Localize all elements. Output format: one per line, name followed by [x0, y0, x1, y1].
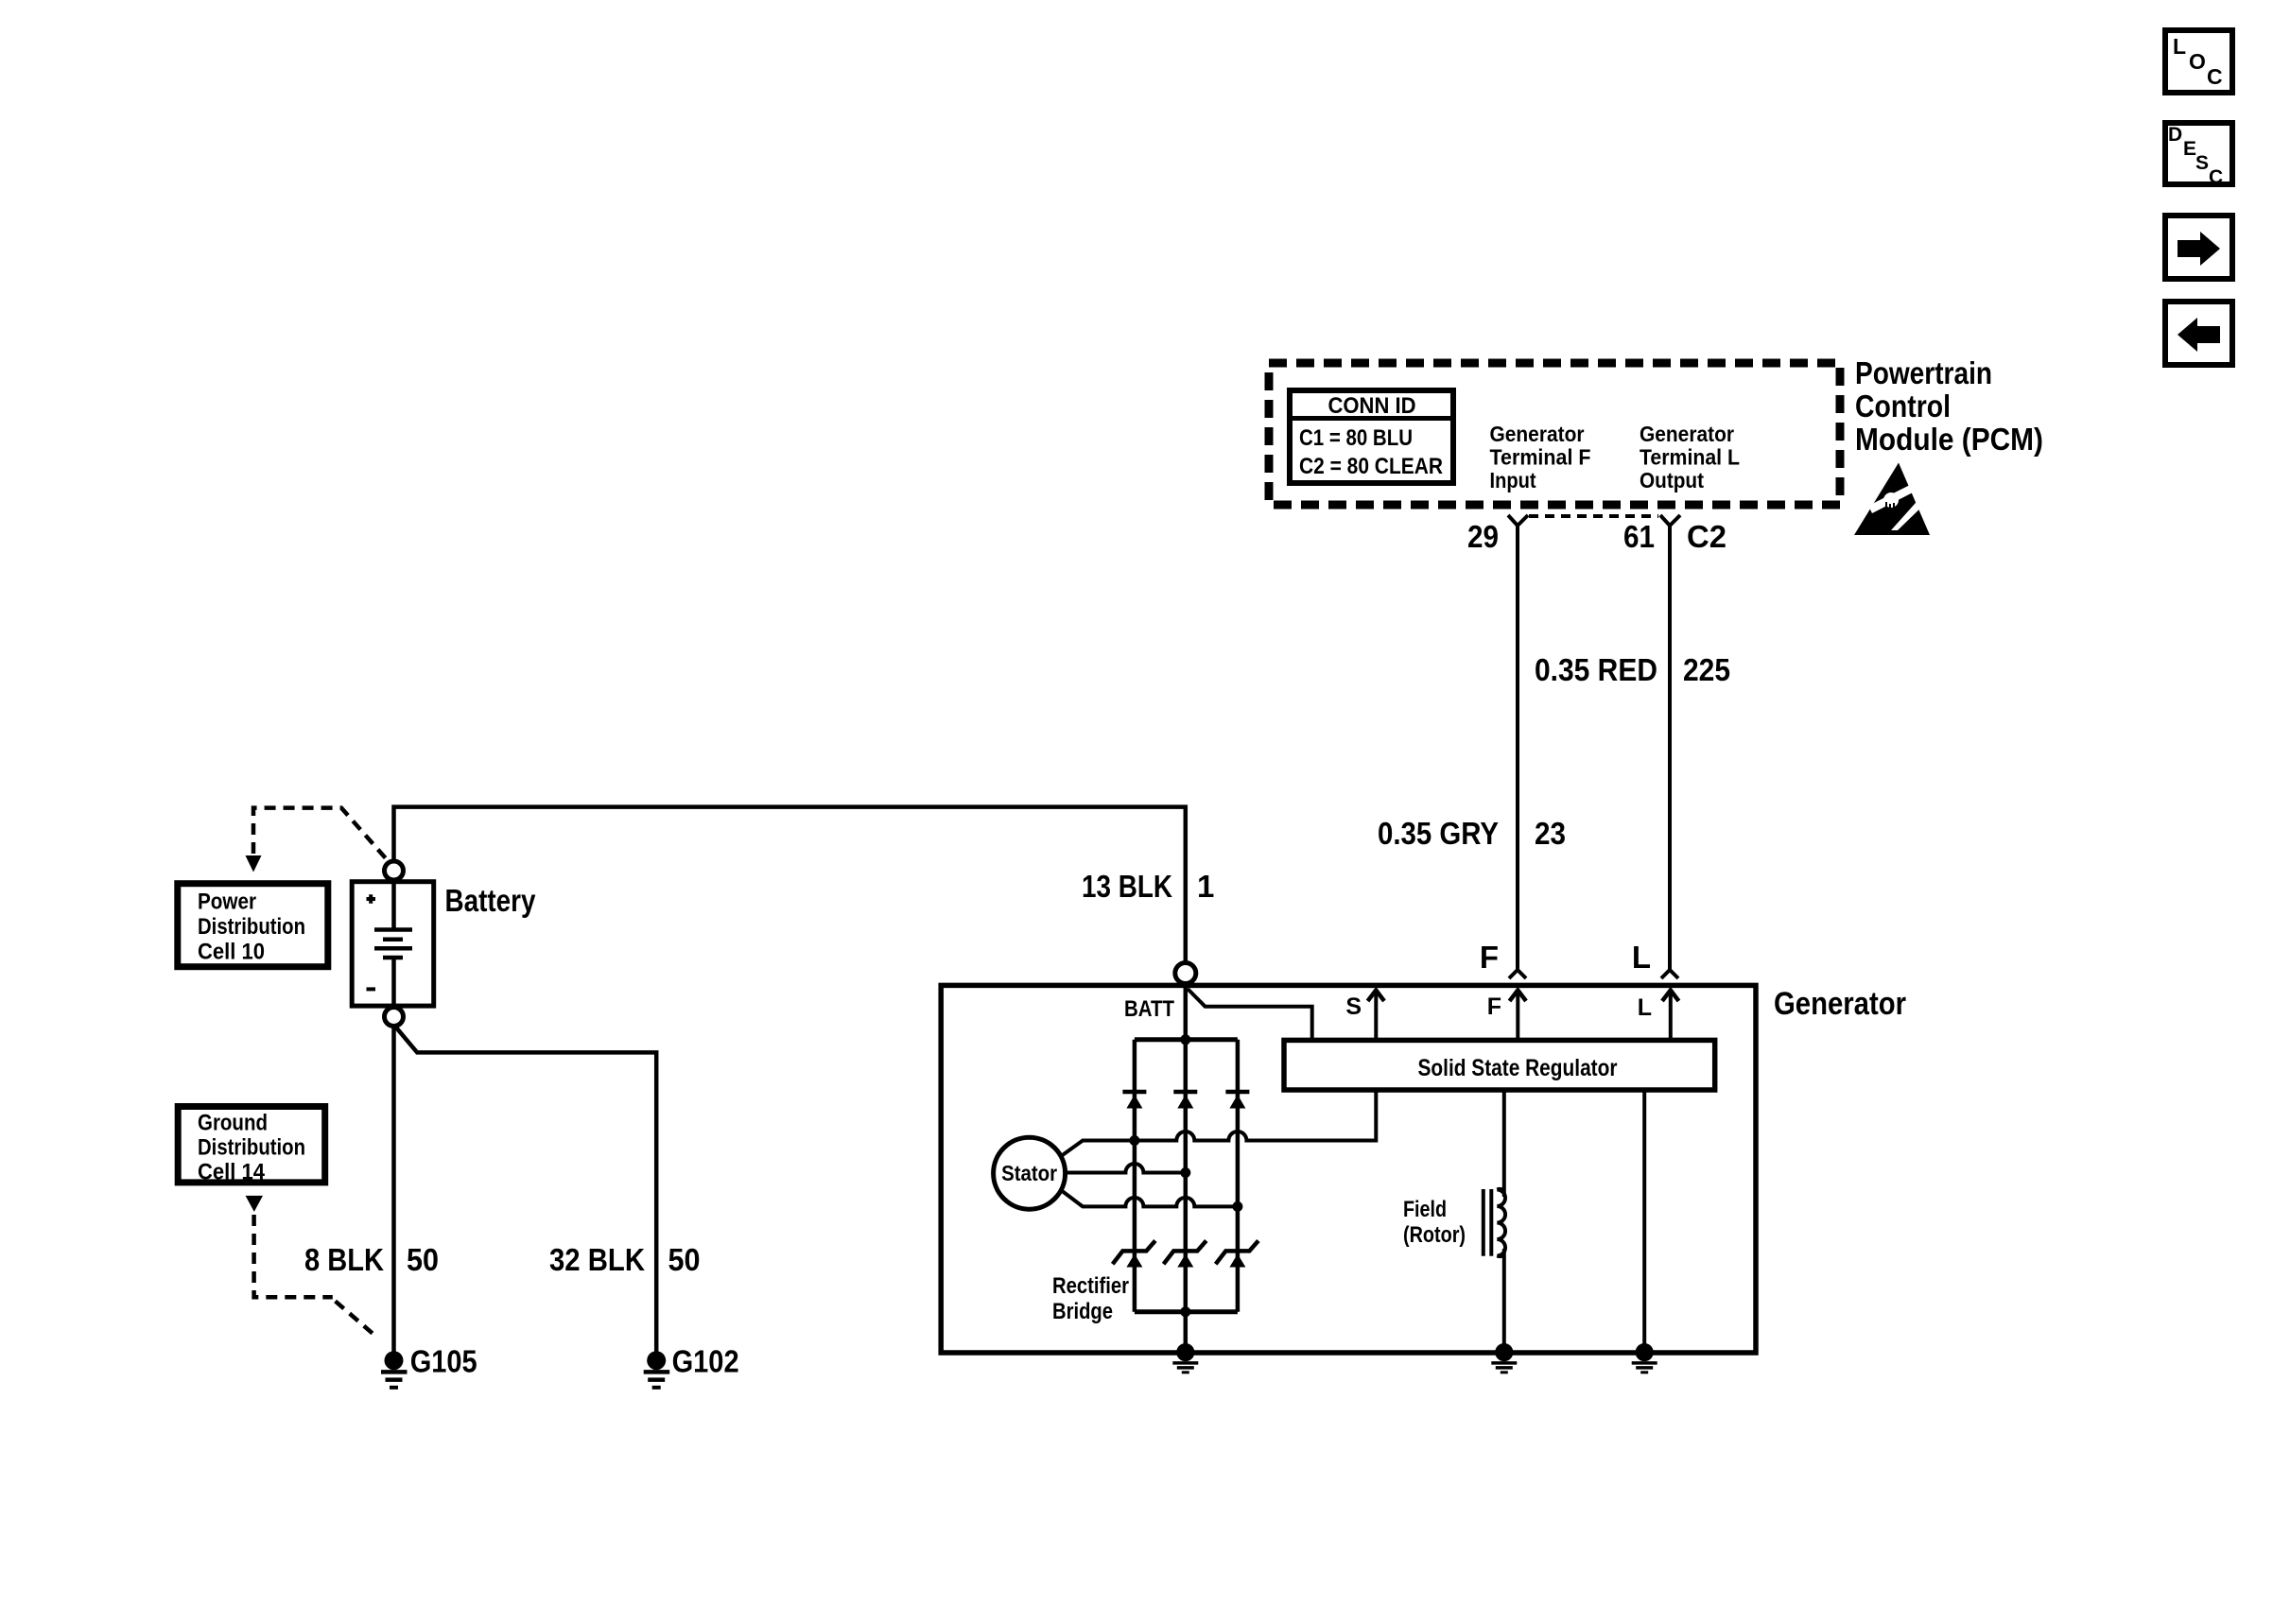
svg-text:29: 29: [1467, 519, 1499, 554]
svg-text:Bridge: Bridge: [1052, 1299, 1113, 1324]
regulator L output arrow: [1638, 991, 1679, 1039]
svg-text:CONN ID: CONN ID: [1328, 393, 1416, 419]
svg-text:Cell 10: Cell 10: [198, 940, 265, 965]
wire F: PCM pin 29 to generator, 0.35 GRY circuit 23: [1516, 526, 1519, 969]
ground: regulator ground: [1632, 1343, 1657, 1373]
svg-text:D: D: [2168, 124, 2182, 146]
svg-text:Distribution: Distribution: [198, 914, 305, 940]
Power Distribution Cell 10 box: [178, 884, 328, 967]
icon LOC button: [2165, 30, 2232, 93]
regulator F input arrow: [1487, 991, 1526, 1039]
svg-text:Terminal L: Terminal L: [1640, 445, 1740, 470]
svg-text:C1 = 80 BLU: C1 = 80 BLU: [1299, 425, 1413, 451]
node: battery negative terminal circle: [385, 1008, 404, 1027]
PCM label Powertrain Control Module: [1855, 355, 2043, 457]
Ground Distribution Cell 14 box: [178, 1107, 325, 1185]
avalanche diode D4 (left bottom): [1113, 1241, 1155, 1268]
wire: stator phase 3 (bottom): [1061, 1190, 1238, 1207]
svg-text:Cell 14: Cell 14: [198, 1160, 265, 1185]
svg-text:Ground: Ground: [198, 1111, 268, 1136]
svg-text:225: 225: [1683, 652, 1730, 687]
svg-text:C: C: [2207, 64, 2223, 89]
svg-text:Power: Power: [198, 890, 256, 915]
svg-text:32 BLK: 32 BLK: [549, 1242, 645, 1277]
wire: battery positive to generator BATT, 13 BLK circuit 1: [394, 807, 1186, 963]
svg-text:Solid State Regulator: Solid State Regulator: [1418, 1055, 1618, 1081]
rectifier bridge label: [1052, 1273, 1129, 1324]
svg-text:Powertrain: Powertrain: [1855, 355, 1992, 390]
battery B1: [352, 882, 434, 1006]
node: BATT rail bottom junction: [1180, 1306, 1190, 1317]
node: BATT rail top junction: [1180, 1034, 1190, 1045]
svg-text:BATT: BATT: [1124, 996, 1174, 1022]
solid state regulator box: [1284, 1040, 1715, 1090]
wire: regulator ground leg: [1642, 1090, 1646, 1353]
connector pin 61 fork: [1623, 515, 1680, 554]
svg-text:1: 1: [1197, 869, 1214, 904]
svg-text:Field: Field: [1403, 1197, 1447, 1222]
svg-text:50: 50: [407, 1242, 439, 1277]
avalanche diode D6 (right bottom): [1216, 1241, 1258, 1268]
regulator S input arrow: [1345, 991, 1384, 1039]
diode D3 (right top): [1225, 1092, 1249, 1109]
svg-text:8 BLK: 8 BLK: [304, 1242, 384, 1277]
svg-text:E: E: [2183, 138, 2196, 160]
svg-text:Module (PCM): Module (PCM): [1855, 422, 2043, 457]
icon DESC button: [2165, 123, 2232, 188]
wire: BATT rail down through generator: [1184, 984, 1189, 1354]
wire: battery negative to G102, 32 BLK circuit 50: [396, 1028, 656, 1352]
PCM module U1 dashed box: [1269, 363, 1840, 505]
svg-text:13 BLK: 13 BLK: [1082, 869, 1172, 904]
terminal L caret at generator: [1661, 970, 1678, 978]
field rotor winding: [1484, 1090, 1505, 1353]
node: phase 1 junction on left rail: [1129, 1135, 1139, 1146]
CONN ID table: [1290, 390, 1453, 483]
svg-text:C: C: [2209, 166, 2223, 188]
svg-text:G105: G105: [410, 1344, 477, 1379]
generator box: [941, 985, 1756, 1353]
svg-text:Terminal F: Terminal F: [1490, 445, 1591, 470]
ground G102: [644, 1344, 739, 1388]
svg-text:Distribution: Distribution: [198, 1135, 305, 1161]
svg-text:Control: Control: [1855, 389, 1951, 423]
svg-text:Generator: Generator: [1490, 422, 1585, 446]
svg-text:G102: G102: [672, 1344, 739, 1379]
field rotor label: [1403, 1197, 1466, 1248]
svg-text:0.35 GRY: 0.35 GRY: [1378, 816, 1499, 851]
ESD sensitive device symbol: [1854, 463, 1930, 536]
diode D2 (center top): [1173, 1092, 1197, 1109]
terminal F caret at generator: [1509, 970, 1526, 978]
node: generator BATT terminal circle: [1175, 963, 1196, 984]
stator winding circle: [994, 1137, 1066, 1209]
dashed reference arrow to Power Distribution: [246, 808, 386, 872]
rectifier bridge rails: [1135, 1040, 1238, 1312]
ground: field winding ground: [1491, 1343, 1517, 1373]
svg-text:Rectifier: Rectifier: [1052, 1273, 1129, 1299]
svg-text:(Rotor): (Rotor): [1403, 1222, 1466, 1248]
svg-text:L: L: [1638, 994, 1652, 1021]
PCM pin label Generator Terminal F Input: [1490, 422, 1591, 492]
ground: generator case ground (BATT rail): [1172, 1343, 1198, 1373]
node: battery positive terminal circle: [385, 861, 404, 880]
wire: stator phase 2 (middle): [1066, 1164, 1186, 1173]
PCM pin label Generator Terminal L Output: [1640, 422, 1740, 492]
svg-text:F: F: [1480, 940, 1499, 975]
svg-text:O: O: [2189, 49, 2206, 74]
icon forward-arrow button: [2165, 216, 2232, 279]
wire: BATT sense to regulator: [1188, 989, 1312, 1038]
node: phase 3 junction on right rail: [1232, 1201, 1242, 1212]
svg-text:L: L: [1632, 940, 1651, 975]
connector pin 29 fork: [1467, 515, 1528, 554]
wire: stator phase 1 (top) to regulator: [1061, 1090, 1376, 1156]
avalanche diode D5 (center bottom): [1164, 1241, 1206, 1268]
svg-text:0.35 RED: 0.35 RED: [1535, 652, 1657, 687]
node: phase 2 junction on center rail: [1180, 1167, 1190, 1178]
wire L: PCM pin 61 to generator, 0.35 RED circuit 225: [1668, 526, 1672, 969]
svg-text:C2 = 80 CLEAR: C2 = 80 CLEAR: [1299, 454, 1443, 479]
svg-text:23: 23: [1535, 816, 1566, 851]
svg-text:S: S: [1345, 993, 1362, 1020]
svg-text:F: F: [1487, 993, 1501, 1020]
dashed reference arrow from Ground Distribution: [246, 1196, 374, 1335]
svg-text:S: S: [2195, 152, 2209, 174]
svg-text:61: 61: [1623, 519, 1655, 554]
svg-text:Generator: Generator: [1774, 986, 1906, 1022]
ground G105: [381, 1344, 477, 1388]
wire: battery negative to G105, 8 BLK circuit 50: [391, 1027, 396, 1353]
diode D1 (left top): [1122, 1092, 1146, 1109]
svg-text:50: 50: [668, 1242, 701, 1277]
svg-text:Input: Input: [1490, 468, 1536, 492]
connector C2 body dashed line: [1529, 514, 1658, 518]
svg-text:Output: Output: [1640, 468, 1704, 492]
svg-text:C2: C2: [1687, 519, 1726, 554]
svg-text:Stator: Stator: [1001, 1161, 1057, 1185]
svg-text:L: L: [2173, 34, 2186, 59]
svg-text:Battery: Battery: [445, 883, 537, 918]
svg-text:Generator: Generator: [1640, 422, 1734, 446]
icon back-arrow button: [2165, 302, 2232, 365]
